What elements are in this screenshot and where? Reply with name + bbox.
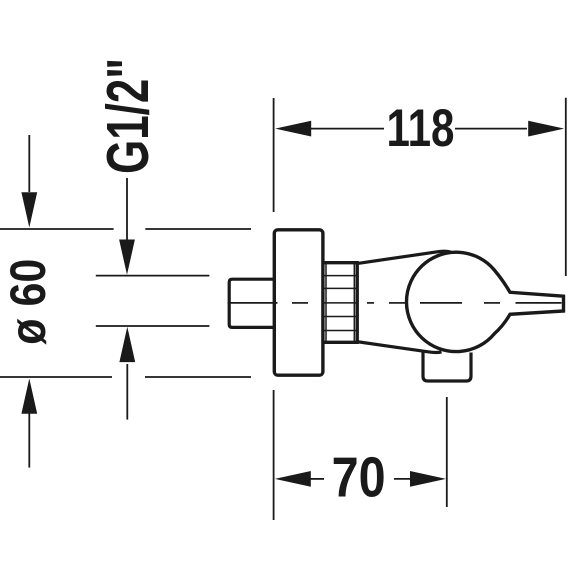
valve body top edge (tapered) [356, 251, 451, 263]
arrow ø60 lower (shaft and head pointing up) [21, 379, 37, 468]
label ø 60 (rotated diameter text) [0, 259, 56, 345]
thread root line left [325, 263, 327, 343]
threaded section outline [323, 263, 357, 343]
valve body bottom edge (tapered) [356, 342, 442, 353]
extension line outlet centre (for 70) [446, 397, 448, 507]
arrowhead 118 right [528, 121, 564, 137]
hex nut (supply connector) [229, 279, 276, 327]
wall flange (round escutcheon, side view) [274, 230, 323, 375]
label G1/2" (rotated thread size text) [94, 58, 161, 174]
arrow G1/2 upper (shaft and head pointing down) [119, 178, 135, 275]
label 70 (bottom dimension text) [332, 446, 386, 509]
centreline (dash-dot axis through fixture) [228, 302, 562, 304]
outlet spigot (bottom connection) [423, 351, 471, 381]
dimension ø60 lower extension line (at flange bottom) [0, 376, 251, 378]
extension line left (wall face, upper part for 118) [273, 98, 275, 212]
thread crest lines [325, 276, 356, 331]
svg-text:ø 60: ø 60 [0, 259, 56, 345]
arrow G1/2 lower (shaft and head pointing up) [119, 327, 135, 420]
dimension G1/2 upper extension line [96, 275, 210, 277]
dimension line 118 [311, 128, 527, 130]
extension line left lower (wall face, for 70) [273, 390, 275, 520]
arrowhead 70 right [410, 471, 446, 487]
arrowhead 70 left [275, 471, 311, 487]
control knob with lever handle (circle, neck and stem) [406, 252, 563, 351]
thread root line right [353, 263, 355, 343]
dimension line 70 [310, 478, 411, 480]
svg-text:118: 118 [387, 99, 455, 158]
dimension G1/2 lower extension line [96, 325, 210, 327]
dimension ø60 upper extension line (at flange top) [0, 228, 251, 230]
svg-text:70: 70 [332, 446, 386, 509]
extension line right (handle tip, for 118) [565, 98, 567, 276]
arrow ø60 upper (shaft and head pointing down) [21, 135, 37, 228]
svg-text:G1/2": G1/2" [94, 58, 161, 174]
arrowhead 118 left [275, 121, 311, 137]
label 118 (top dimension text) [387, 99, 455, 158]
